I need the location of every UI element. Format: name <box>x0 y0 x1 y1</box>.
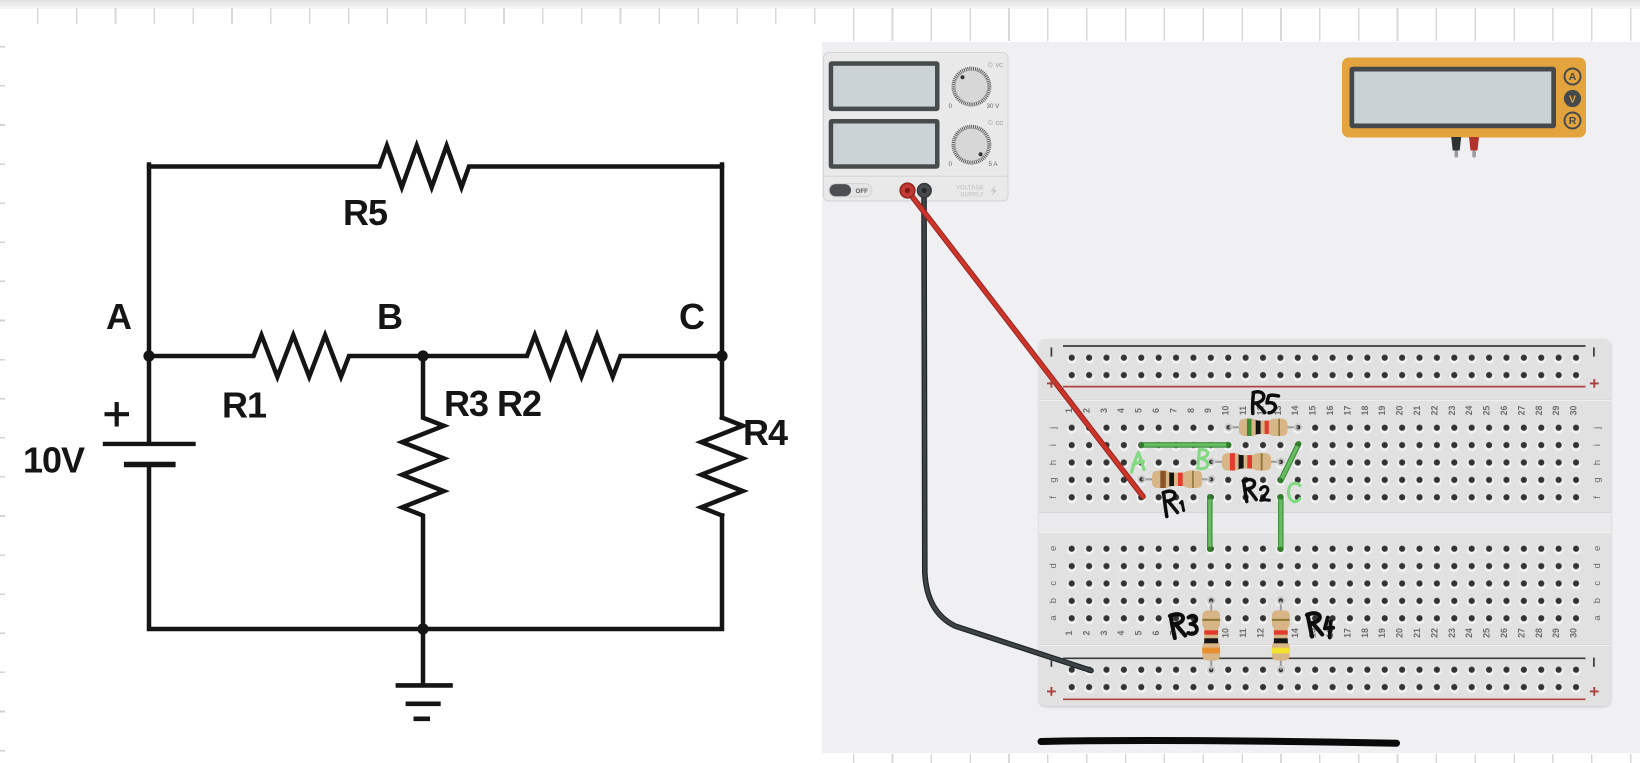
svg-text:6: 6 <box>1151 630 1161 635</box>
svg-text:CC: CC <box>996 121 1004 127</box>
svg-text:i: i <box>1048 444 1059 446</box>
svg-text:a: a <box>1048 615 1059 621</box>
svg-text:12: 12 <box>1255 628 1265 638</box>
svg-text:14: 14 <box>1290 406 1300 416</box>
svg-text:R1: R1 <box>222 385 267 426</box>
svg-text:14: 14 <box>1290 628 1300 638</box>
svg-text:c: c <box>1048 581 1059 586</box>
svg-text:19: 19 <box>1377 628 1387 638</box>
svg-text:23: 23 <box>1447 406 1457 416</box>
svg-text:VOLTAGE: VOLTAGE <box>956 186 984 192</box>
svg-text:a: a <box>1592 615 1603 621</box>
svg-text:25: 25 <box>1482 628 1492 638</box>
svg-text:g: g <box>1592 477 1603 482</box>
svg-text:5: 5 <box>1134 408 1144 413</box>
svg-text:7: 7 <box>1168 408 1178 413</box>
svg-text:j: j <box>1048 427 1059 430</box>
svg-text:b: b <box>1592 598 1603 603</box>
svg-text:10V: 10V <box>23 440 85 481</box>
svg-text:f: f <box>1592 496 1603 499</box>
svg-text:21: 21 <box>1412 628 1422 638</box>
svg-text:27: 27 <box>1516 406 1526 416</box>
svg-text:21: 21 <box>1412 406 1422 416</box>
svg-text:15: 15 <box>1308 406 1318 416</box>
svg-text:R3 R2: R3 R2 <box>444 383 541 424</box>
svg-text:29: 29 <box>1551 628 1561 638</box>
svg-text:28: 28 <box>1534 628 1544 638</box>
svg-text:30 V: 30 V <box>987 103 1001 110</box>
svg-text:6: 6 <box>1151 408 1161 413</box>
svg-text:8: 8 <box>1186 408 1196 413</box>
svg-text:d: d <box>1592 563 1603 568</box>
svg-text:2: 2 <box>1081 408 1091 413</box>
svg-text:d: d <box>1048 563 1059 568</box>
svg-text:28: 28 <box>1534 406 1544 416</box>
svg-text:30: 30 <box>1569 628 1579 638</box>
svg-text:e: e <box>1048 546 1059 551</box>
svg-text:20: 20 <box>1395 628 1405 638</box>
svg-text:22: 22 <box>1429 406 1439 416</box>
svg-text:C: C <box>679 296 705 337</box>
svg-text:29: 29 <box>1551 406 1561 416</box>
svg-text:23: 23 <box>1447 628 1457 638</box>
svg-text:17: 17 <box>1342 406 1352 416</box>
svg-text:18: 18 <box>1360 628 1370 638</box>
svg-text:5: 5 <box>1134 630 1144 635</box>
svg-text:2: 2 <box>1081 630 1091 635</box>
svg-text:27: 27 <box>1516 628 1526 638</box>
svg-text:OFF: OFF <box>856 188 869 195</box>
svg-text:A: A <box>106 296 132 337</box>
svg-text:SUPPLY: SUPPLY <box>961 193 984 199</box>
svg-text:i: i <box>1592 444 1603 446</box>
svg-text:R: R <box>1569 115 1577 127</box>
svg-text:R5: R5 <box>343 192 388 233</box>
svg-text:19: 19 <box>1377 406 1387 416</box>
svg-text:j: j <box>1592 427 1603 430</box>
svg-text:1: 1 <box>1064 408 1074 413</box>
svg-text:h: h <box>1592 460 1603 465</box>
svg-text:16: 16 <box>1325 406 1335 416</box>
svg-text:B: B <box>377 296 402 337</box>
svg-text:4: 4 <box>1116 630 1126 635</box>
svg-text:10: 10 <box>1221 628 1231 638</box>
svg-text:3: 3 <box>1099 630 1109 635</box>
svg-text:0: 0 <box>949 103 953 110</box>
svg-text:e: e <box>1592 546 1603 551</box>
svg-text:0: 0 <box>949 161 953 168</box>
svg-text:A: A <box>1569 71 1577 83</box>
svg-text:26: 26 <box>1499 406 1509 416</box>
svg-text:24: 24 <box>1464 406 1474 416</box>
svg-text:25: 25 <box>1482 406 1492 416</box>
svg-text:R4: R4 <box>743 412 788 453</box>
svg-text:11: 11 <box>1238 406 1248 415</box>
svg-text:VC: VC <box>996 63 1004 69</box>
svg-text:4: 4 <box>1116 408 1126 413</box>
svg-text:b: b <box>1048 598 1059 603</box>
svg-text:f: f <box>1048 496 1059 499</box>
svg-text:h: h <box>1048 460 1059 465</box>
svg-text:11: 11 <box>1238 628 1248 637</box>
svg-text:26: 26 <box>1499 628 1509 638</box>
svg-text:3: 3 <box>1099 408 1109 413</box>
svg-text:c: c <box>1592 581 1603 586</box>
svg-text:30: 30 <box>1569 406 1579 416</box>
svg-text:24: 24 <box>1464 628 1474 638</box>
svg-text:V: V <box>1569 93 1576 105</box>
svg-text:9: 9 <box>1203 408 1213 413</box>
svg-text:10: 10 <box>1221 406 1231 416</box>
svg-text:17: 17 <box>1342 628 1352 638</box>
svg-text:20: 20 <box>1395 406 1405 416</box>
svg-text:1: 1 <box>1064 630 1074 635</box>
svg-text:18: 18 <box>1360 406 1370 416</box>
svg-text:22: 22 <box>1429 628 1439 638</box>
svg-text:5 A: 5 A <box>989 161 999 168</box>
svg-text:g: g <box>1048 477 1059 482</box>
